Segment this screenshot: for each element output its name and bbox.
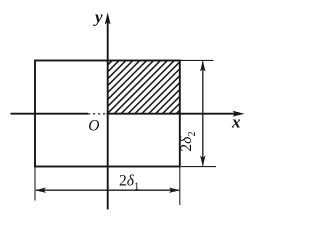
svg-text:y: y: [93, 8, 103, 27]
svg-text:O: O: [88, 118, 99, 135]
svg-text:x: x: [231, 113, 241, 132]
